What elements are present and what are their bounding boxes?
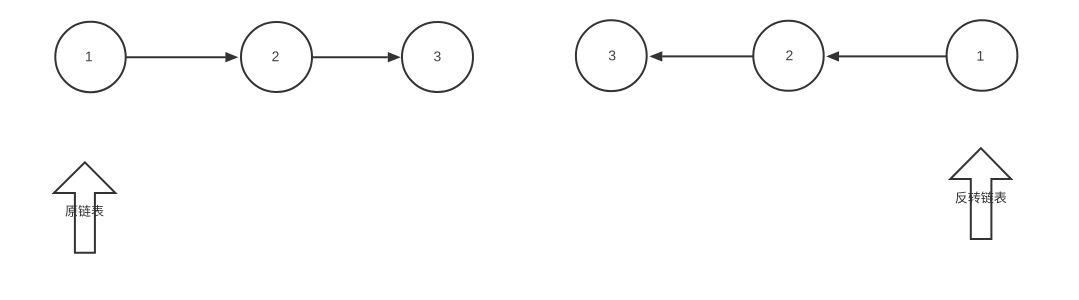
wire arrow 2-to-3 (original list) (312, 52, 400, 62)
node 2 (original list) (241, 22, 312, 92)
label: yuan-lian-biao (original list) (65, 205, 103, 217)
node 3 (original list) (402, 22, 473, 92)
node 1 (original list) (55, 22, 125, 92)
node 2 (reversed list) (753, 21, 823, 91)
block arrow pointer (reversed list) (950, 148, 1011, 239)
block arrow pointer (original list) (54, 162, 116, 253)
wire arrow 2-to-3 (reversed list) (649, 51, 753, 61)
wire arrow 1-to-2 (reversed list) (826, 51, 946, 61)
node 3 (reversed list) (576, 20, 647, 91)
node 1 (reversed list) (947, 20, 1018, 91)
wire arrow 1-to-2 (original list) (126, 52, 238, 62)
label: fan-zhuan-lian-biao (reversed list) (956, 191, 1007, 203)
